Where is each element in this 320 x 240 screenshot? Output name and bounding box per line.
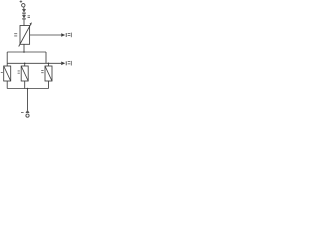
wire between VD1 and VD2 (23, 13, 25, 15)
resistor R1 adjustment arrow (19, 22, 32, 46)
bottom bus wire y88 (7, 88, 48, 90)
stub wire to V1 (6, 63, 8, 66)
label at terminal X3 (68, 61, 72, 66)
wire right drop (45, 52, 47, 63)
terminal X2 arrow (61, 33, 65, 37)
label beside VD2 (28, 16, 30, 19)
diode VD1 (22, 9, 26, 13)
wire from VD2 to resistor R1 (23, 19, 25, 26)
rectifier V3 diagonal (45, 66, 52, 81)
stub wire to V3 (48, 63, 50, 66)
bus wire y63 (7, 62, 61, 64)
wire from R1 bottom to node row (23, 44, 25, 52)
label beside R1 (14, 33, 17, 36)
terminal X1 top input circle (22, 4, 25, 7)
resistor R1 variable rectangle (20, 26, 30, 45)
label beside V3 (41, 70, 43, 73)
wire V3 bottom to bottom bus (48, 81, 50, 89)
junction dot bottom bus (27, 88, 29, 90)
junction dot on bus at V3 (48, 63, 50, 65)
wire from R1 tap to output terminal X2 (30, 34, 62, 36)
label beside V1 (1, 71, 3, 74)
wire V1 bottom to bottom bus (6, 81, 8, 89)
label plus sign at top input (20, 0, 23, 3)
diode at X4 (26, 110, 30, 113)
wire left drop (6, 52, 8, 63)
node junction dot (23, 51, 25, 53)
wire V2 bottom to bottom bus (24, 81, 26, 89)
rectifier V2 diagonal (21, 66, 28, 81)
terminal X4 circle (26, 114, 29, 117)
wire from terminal X1 to diode VD1 (23, 7, 25, 9)
wire drop to terminal X4 (27, 89, 29, 111)
terminal X3 arrow (61, 62, 65, 66)
wire horizontal node row y52 (7, 51, 46, 53)
rectifier V2 box (21, 66, 28, 81)
junction dot on bus at V2 (24, 63, 26, 65)
rectifier V1 diagonal (4, 66, 11, 81)
diode VD2 (22, 15, 26, 19)
label beside V2 (18, 71, 20, 74)
rectifier V1 box (4, 66, 11, 81)
rectifier V3 box (45, 66, 52, 81)
label at terminal X2 (68, 33, 72, 38)
stub wire to V2 (24, 63, 26, 66)
label minus at X4 (21, 111, 24, 114)
